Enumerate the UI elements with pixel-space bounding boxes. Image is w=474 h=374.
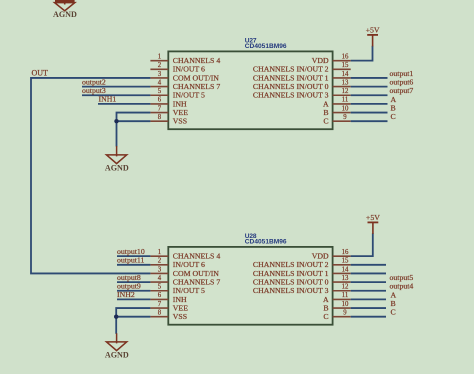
svg-text:COM OUT/IN: COM OUT/IN (173, 269, 219, 278)
svg-text:15: 15 (342, 62, 349, 69)
svg-text:A: A (323, 99, 329, 108)
svg-text:C: C (323, 312, 328, 321)
pin 15 of U27 (CHANNELS IN/OUT 2) (253, 62, 351, 74)
IC U28 body (CD4051BM96) (168, 247, 332, 325)
svg-text:COM OUT/IN: COM OUT/IN (173, 73, 219, 82)
svg-text:5: 5 (158, 88, 162, 95)
svg-text:6: 6 (158, 97, 162, 104)
svg-text:13: 13 (342, 275, 349, 282)
svg-text:CHANNELS 4: CHANNELS 4 (173, 252, 221, 261)
wire net B (U27 pin10) (351, 112, 388, 114)
wire net B (U28 pin10) (351, 307, 386, 309)
wire U27 pin7 VEE to ground rail (117, 113, 151, 122)
svg-text:7: 7 (158, 105, 162, 112)
svg-text:B: B (323, 303, 328, 312)
ground AGND (top-left) (53, 0, 77, 19)
svg-text:CHANNELS IN/OUT 2: CHANNELS IN/OUT 2 (253, 65, 329, 74)
svg-text:IN/OUT 5: IN/OUT 5 (173, 91, 205, 100)
svg-text:VSS: VSS (173, 117, 187, 126)
svg-text:14: 14 (342, 71, 349, 78)
svg-text:CD4051BM96: CD4051BM96 (245, 239, 287, 246)
pin 15 of U28 (CHANNELS IN/OUT 2) (253, 258, 351, 270)
svg-text:11: 11 (342, 97, 349, 104)
svg-text:IN/OUT 6: IN/OUT 6 (173, 65, 205, 74)
pin 11 of U27 (A) (323, 97, 351, 109)
wire net INH2 (U28 pin6) (117, 298, 150, 300)
svg-text:2: 2 (158, 258, 162, 265)
svg-text:+5V: +5V (366, 213, 380, 222)
wire net output6 (U27 pin13) (351, 86, 388, 88)
svg-text:VDD: VDD (312, 252, 329, 261)
wire net output1 (U27 pin14) (351, 77, 388, 79)
svg-text:8: 8 (158, 114, 162, 121)
wire net output5 (U28 pin13) (351, 281, 386, 283)
wire net OUT: U27 pin3 to U28 pin3 (31, 78, 150, 274)
svg-text:VSS: VSS (173, 312, 187, 321)
svg-text:13: 13 (342, 79, 349, 86)
svg-text:CHANNELS IN/OUT 1: CHANNELS IN/OUT 1 (253, 269, 329, 278)
wire net output4 (U28 pin12) (351, 290, 386, 292)
wire down to AGND below U28 (115, 317, 117, 334)
svg-text:+5V: +5V (366, 26, 380, 35)
svg-text:output8: output8 (117, 273, 141, 282)
pin 8 of U27 (VSS) (150, 114, 187, 126)
svg-text:CHANNELS 4: CHANNELS 4 (173, 56, 221, 65)
wire net A (U28 pin11) (351, 298, 386, 300)
wire net C (U27 pin9) (351, 120, 388, 122)
wire at U28 pin15 (unlabelled) (351, 264, 386, 266)
pin 6 of U27 (INH) (150, 97, 187, 109)
svg-text:CHANNELS IN/OUT 1: CHANNELS IN/OUT 1 (253, 73, 329, 82)
wire U27 pin16 VDD to +5V (351, 46, 373, 61)
svg-text:INH: INH (173, 99, 187, 108)
svg-text:16: 16 (342, 53, 349, 60)
svg-text:9: 9 (343, 310, 347, 317)
svg-text:output4: output4 (390, 282, 414, 291)
svg-text:AGND: AGND (105, 163, 129, 172)
pin 16 of U27 (VDD) (312, 53, 351, 65)
wire net output3 (U27 pin5) (82, 94, 150, 96)
svg-text:AGND: AGND (105, 350, 129, 359)
svg-text:4: 4 (158, 275, 162, 282)
IC U27 body (CD4051BM96) (168, 51, 332, 129)
pin 4 of U28 (CHANNELS 7) (150, 275, 220, 287)
svg-text:1: 1 (158, 249, 161, 256)
svg-text:10: 10 (342, 105, 349, 112)
ground AGND (below U27) (105, 146, 129, 172)
pin 10 of U27 (B) (323, 105, 350, 117)
pin 5 of U27 (IN/OUT 5) (150, 88, 205, 100)
wire U28 pin7 VEE to ground rail (116, 308, 150, 317)
wire U28 pin16 VDD to +5V (351, 233, 373, 256)
svg-text:12: 12 (342, 88, 349, 95)
wire net output11 (U28 pin2) (117, 264, 150, 266)
svg-text:CHANNELS IN/OUT 3: CHANNELS IN/OUT 3 (253, 286, 329, 295)
pin 9 of U28 (C) (323, 310, 350, 322)
svg-text:9: 9 (343, 114, 347, 121)
pin 7 of U28 (VEE) (150, 301, 188, 313)
svg-text:A: A (391, 95, 397, 104)
svg-text:VEE: VEE (173, 303, 188, 312)
svg-text:14: 14 (342, 266, 349, 273)
pin 14 of U28 (CHANNELS IN/OUT 1) (253, 266, 351, 278)
svg-text:OUT: OUT (32, 68, 49, 77)
svg-text:7: 7 (158, 301, 162, 308)
svg-text:CD4051BM96: CD4051BM96 (245, 43, 287, 50)
svg-text:VDD: VDD (312, 56, 329, 65)
svg-text:11: 11 (342, 292, 349, 299)
pin 11 of U28 (A) (323, 292, 351, 304)
svg-text:16: 16 (342, 249, 349, 256)
cropped horizontal bar at sheet top edge (part of clipped symbol) (55, 0, 75, 2)
wire net INH1 (U27 pin6) (98, 103, 150, 105)
svg-text:output1: output1 (390, 69, 414, 78)
svg-text:4: 4 (158, 79, 162, 86)
svg-text:INH: INH (173, 295, 187, 304)
power +5V (above U27) (366, 26, 380, 47)
junction at U28 VSS node (114, 315, 118, 319)
power +5V (above U28) (366, 213, 380, 234)
wire net output10 (U28 pin1) (117, 255, 150, 257)
svg-text:VEE: VEE (173, 108, 188, 117)
svg-text:15: 15 (342, 258, 349, 265)
svg-text:10: 10 (342, 301, 349, 308)
wire net A (U27 pin11) (351, 103, 388, 105)
svg-text:1: 1 (158, 53, 161, 60)
svg-text:3: 3 (158, 266, 162, 273)
svg-text:B: B (391, 299, 396, 308)
svg-text:C: C (391, 308, 396, 317)
svg-text:CHANNELS 7: CHANNELS 7 (173, 82, 221, 91)
svg-text:2: 2 (158, 62, 162, 69)
pin 4 of U27 (CHANNELS 7) (150, 79, 220, 91)
svg-text:3: 3 (158, 71, 162, 78)
wire at U28 pin14 (unlabelled) (351, 272, 386, 274)
pin 3 of U28 (COM OUT/IN) (150, 266, 219, 278)
svg-text:AGND: AGND (53, 10, 77, 19)
svg-text:output10: output10 (117, 247, 145, 256)
pin 12 of U27 (CHANNELS IN/OUT 3) (253, 88, 351, 100)
pin 7 of U27 (VEE) (150, 105, 188, 117)
svg-text:12: 12 (342, 284, 349, 291)
svg-text:output5: output5 (390, 273, 414, 282)
svg-text:IN/OUT 5: IN/OUT 5 (173, 286, 205, 295)
wire net output7 (U27 pin12) (351, 94, 388, 96)
svg-text:output2: output2 (82, 77, 106, 86)
wire net output2 (U27 pin4) (82, 86, 150, 88)
svg-text:output11: output11 (117, 256, 145, 265)
pin 8 of U28 (VSS) (150, 310, 187, 322)
svg-text:C: C (323, 117, 328, 126)
pin 6 of U28 (INH) (150, 292, 187, 304)
svg-text:CHANNELS 7: CHANNELS 7 (173, 278, 221, 287)
pin 13 of U27 (CHANNELS IN/OUT 0) (253, 79, 351, 91)
svg-text:C: C (391, 112, 396, 121)
svg-text:INH2: INH2 (117, 290, 135, 299)
wire down to AGND below U27 (116, 121, 118, 146)
svg-text:INH1: INH1 (99, 95, 117, 104)
svg-text:5: 5 (158, 284, 162, 291)
pin 13 of U28 (CHANNELS IN/OUT 0) (253, 275, 351, 287)
pin 2 of U28 (IN/OUT 6) (150, 258, 205, 270)
pin 10 of U28 (B) (323, 301, 350, 313)
svg-text:output9: output9 (117, 282, 141, 291)
junction at U27 VSS node (114, 119, 118, 123)
svg-text:B: B (391, 103, 396, 112)
pin 1 of U27 (CHANNELS 4) (150, 53, 220, 65)
svg-text:output7: output7 (390, 86, 414, 95)
pin 2 of U27 (IN/OUT 6) (150, 62, 205, 74)
wire U27 pin8 VSS to ground rail (117, 120, 151, 122)
wire net C (U28 pin9) (351, 316, 386, 318)
pin 1 of U28 (CHANNELS 4) (150, 249, 220, 261)
svg-text:B: B (323, 108, 328, 117)
svg-text:A: A (391, 290, 397, 299)
pin 3 of U27 (COM OUT/IN) (150, 71, 219, 83)
svg-text:CHANNELS IN/OUT 3: CHANNELS IN/OUT 3 (253, 91, 329, 100)
svg-text:output6: output6 (390, 78, 414, 87)
pin 5 of U28 (IN/OUT 5) (150, 284, 205, 296)
wire net output8 (U28 pin4) (117, 281, 150, 283)
pin 14 of U27 (CHANNELS IN/OUT 1) (253, 71, 351, 83)
svg-text:A: A (323, 295, 329, 304)
pin 16 of U28 (VDD) (312, 249, 351, 261)
svg-text:8: 8 (158, 310, 162, 317)
svg-text:IN/OUT 6: IN/OUT 6 (173, 260, 205, 269)
svg-text:6: 6 (158, 292, 162, 299)
svg-text:CHANNELS IN/OUT 2: CHANNELS IN/OUT 2 (253, 260, 329, 269)
ground AGND (below U28) (105, 333, 129, 359)
wire net output9 (U28 pin5) (117, 290, 150, 292)
wire U28 pin8 VSS to ground rail (116, 316, 150, 318)
svg-text:CHANNELS IN/OUT 0: CHANNELS IN/OUT 0 (253, 82, 329, 91)
pin 9 of U27 (C) (323, 114, 350, 126)
pin 12 of U28 (CHANNELS IN/OUT 3) (253, 284, 351, 296)
svg-text:output3: output3 (82, 86, 106, 95)
svg-text:CHANNELS IN/OUT 0: CHANNELS IN/OUT 0 (253, 278, 329, 287)
